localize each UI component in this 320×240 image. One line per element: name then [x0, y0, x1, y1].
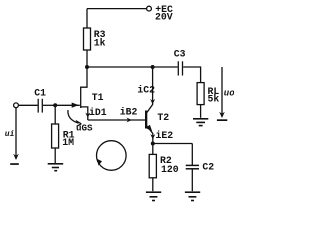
current arrow iE2 [150, 134, 155, 139]
input terminal circle [14, 103, 19, 108]
transistor T2 base bar [145, 111, 147, 129]
svg-text:120: 120 [161, 164, 179, 175]
wire R1 bottom lead [54, 148, 56, 163]
loop arrow circle [97, 141, 127, 171]
wire R2 bottom lead [152, 178, 154, 191]
svg-text:iB2: iB2 [120, 106, 138, 117]
svg-text:1M: 1M [62, 137, 74, 148]
ground under R2 [146, 192, 161, 200]
svg-text:20V: 20V [155, 12, 173, 23]
wire RL bottom lead [200, 105, 202, 118]
wire T1 gate [55, 104, 80, 106]
junction node B [151, 65, 155, 69]
junction node A [85, 65, 89, 69]
wire node C to C2 [153, 143, 193, 145]
transistor T1 gate arrow [72, 103, 79, 108]
current arrow iD1 [85, 113, 90, 118]
transistor T1 channel [80, 87, 82, 109]
wire R3 bottom lead [86, 50, 88, 67]
wire input to C1 [18, 104, 37, 106]
transistor T2 emitter arrow [146, 125, 153, 132]
wire node C to R2 [152, 144, 154, 155]
capacitor C2 [186, 165, 199, 168]
wire rail B to C3 [153, 66, 178, 68]
junction node C [151, 142, 155, 146]
svg-text:C1: C1 [34, 87, 46, 98]
wire C2 top lead [191, 144, 193, 166]
wire C1 to node D [43, 104, 55, 106]
svg-text:5k: 5k [208, 94, 220, 105]
capacitor C1 [38, 99, 42, 113]
ground under R1 [48, 164, 64, 171]
svg-text:iC2: iC2 [137, 85, 155, 96]
wire uo annotation line [221, 67, 223, 117]
resistor R2 [149, 154, 156, 177]
wire T1 source to T2 base [88, 119, 145, 121]
wire T2 emitter lead [147, 126, 153, 144]
resistor R3 [84, 28, 91, 50]
wire T2 collector lead [147, 67, 153, 113]
svg-text:C3: C3 [174, 48, 186, 59]
wire C3 to corner [183, 67, 200, 83]
svg-text:uo: uo [224, 89, 234, 99]
voltage uo arrow [219, 112, 225, 118]
voltage uo bar [217, 119, 227, 121]
wire C2 bottom lead [191, 169, 193, 191]
svg-text:1k: 1k [94, 38, 106, 49]
wire R1 top lead [54, 105, 56, 124]
wire top rail [87, 8, 146, 10]
capacitor C3 [178, 61, 182, 75]
voltage ui bar [10, 163, 19, 165]
wire ui annotation line [15, 108, 17, 159]
wire collector rail A to B [87, 66, 153, 68]
svg-text:ui: ui [5, 130, 15, 139]
current arrow iB2 [127, 118, 132, 123]
wire T1 source lead [81, 107, 88, 120]
resistor R1 [52, 124, 59, 148]
current arrow iC2 [150, 99, 155, 104]
junction node D [53, 103, 57, 107]
loop arrow head [97, 159, 102, 166]
svg-text:iE2: iE2 [156, 130, 174, 141]
wire T1 drain lead [81, 67, 87, 87]
ground under C2 [185, 192, 200, 200]
svg-text:T1: T1 [92, 92, 104, 103]
uGS arrow head [76, 121, 82, 127]
svg-text:T2: T2 [157, 112, 169, 123]
svg-text:uGS: uGS [76, 123, 93, 134]
resistor RL [197, 83, 204, 105]
svg-text:iD1: iD1 [89, 107, 107, 118]
voltage ui arrow [13, 154, 19, 160]
voltage uGS arc [68, 110, 79, 123]
terminal +EC circle [147, 6, 152, 11]
svg-text:C2: C2 [202, 162, 214, 173]
wire R3 top lead [86, 9, 88, 28]
ground under RL [193, 119, 208, 126]
